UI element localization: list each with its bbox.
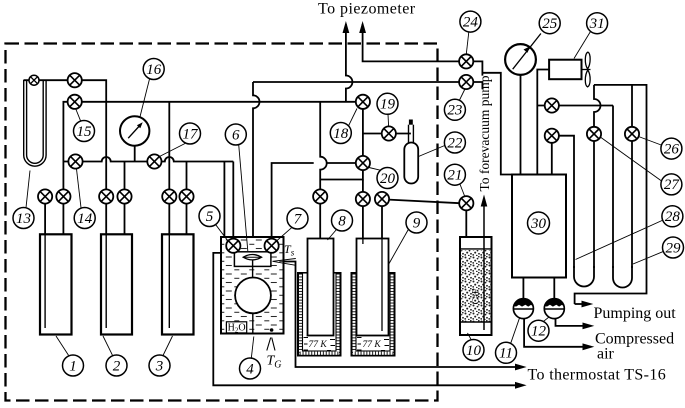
label 13 [13,171,34,229]
pumping out arrowhead [582,301,594,308]
svg-text:To thermostat TS-16: To thermostat TS-16 [528,367,667,384]
bulb [235,278,271,314]
label 19 [377,93,398,126]
valve 26 [625,127,639,141]
wire: piezometer left arm with hop over y=82 bus [346,24,353,102]
labels 13-17 and 1-3 [13,59,201,377]
label 15 [74,110,95,142]
H2O label plate [226,322,246,333]
svg-text:21: 21 [447,168,462,184]
label 4 [240,337,261,380]
valve 5 (in bath) [226,239,240,253]
wire: valve26 down U29 right arm [631,141,633,268]
svg-text:23: 23 [447,103,462,119]
wire: forevacuum line through column [483,206,485,330]
label 12 [528,317,549,341]
svg-text:27: 27 [664,177,681,193]
labels 18-22 [330,11,481,196]
svg-text:77 K: 77 K [363,340,382,350]
valve dewar9-left [356,192,370,206]
label 10 [463,333,484,361]
svg-text:19: 19 [380,97,396,113]
valve Vb [545,129,559,143]
wire: cylinder stubs below valves [44,203,46,234]
wire: riser x=186.5 cylinder3 right valve [186,162,188,190]
valve 17 [147,154,161,168]
svg-text:25: 25 [542,16,558,32]
svg-text:29: 29 [666,240,682,256]
svg-text:15: 15 [77,124,93,140]
label 14 [74,169,95,229]
wire: valve21 down to drying column [465,210,467,237]
valve 27 [587,127,601,141]
wire: right bus continues to valve20 [327,162,356,164]
valve cyl3-left [162,189,176,203]
wire: valve20 down, branch y=179.5 to both dewar valves [320,170,363,180]
wire: valve Va line y=105.5 with bridge at x=594, corner to U29 left arm [537,106,613,269]
wire: valve18 down to valve20 [362,109,364,157]
wire: valve15 bus corner down to cylinder1 right valve [63,102,68,190]
valve (small, on U-tube header) [29,75,39,85]
float lens [243,255,261,260]
wire: Vb down to box30 [551,143,553,175]
forevacuum arrowhead [481,195,488,207]
U-tube trap 13 [24,80,46,166]
wire: left header line y=80 [24,80,107,189]
svg-text:28: 28 [665,209,681,225]
wire: bus y=161.5 with hops at x=106.2 and x=169.3 [63,157,233,162]
svg-text:1: 1 [69,358,77,374]
wire: top line y=84.9 to right drop x=646.5 [575,85,647,304]
svg-text:30: 30 [530,216,547,232]
valve 15 [68,95,82,109]
wire: riser x=124.5 cylinder2 right valve [124,162,126,190]
svg-text:12: 12 [531,324,547,340]
svg-text:8: 8 [338,213,346,229]
label 2 [103,336,127,376]
svg-text:22: 22 [447,135,463,151]
svg-text:4: 4 [246,361,254,377]
valve (U-tube header right) [68,73,82,87]
inner sample chamber [234,252,271,267]
label 26 [639,137,682,160]
label 6 [225,124,248,251]
label 7 [277,208,309,241]
wire: dewar tube stubs [319,203,321,238]
svg-text:11: 11 [499,346,513,362]
wire: vertical x=594 corner to y=84.9, bridge over 105.5 [594,85,601,127]
wire: valve19 branch line [363,133,411,135]
svg-text:24: 24 [463,14,479,30]
svg-text:26: 26 [664,141,680,157]
valve 21 [459,196,473,210]
valve 7 (in bath) [265,239,279,253]
wire: riser to dewar8 valve with hop over bus y=163 [320,102,327,190]
wire: bus to valve21 [389,200,460,204]
label 27 [600,137,682,195]
label 17 [159,123,201,157]
wire: branch from bracket to box30 [482,73,512,175]
pump 11 [513,299,533,319]
wires: box30 to pumps [522,278,524,299]
svg-text:14: 14 [77,211,93,227]
svg-text:20: 20 [380,171,396,187]
box 30 [512,175,566,278]
thermostat circuit: bath to lower arrow [213,162,520,386]
svg-text:6: 6 [232,127,240,143]
label 22 [419,132,466,157]
svg-text:18: 18 [333,126,349,142]
svg-text:10: 10 [466,343,482,359]
gauge 16 [120,116,149,145]
tube from lens to bulb [252,260,254,278]
U-tube 29 bottom [613,266,632,288]
wire: main bus y=82 from corner x=253 to valve23 [253,81,459,83]
dashed border frame [6,44,438,401]
label 20 [369,168,398,189]
svg-text:16: 16 [146,62,162,78]
valve 24 [459,54,473,68]
wire: piezometer right arm, bus y=61.4 to valve24 and bracket [363,24,460,61]
label 9 [389,212,427,264]
wire: bath left outlet L-pipe to thermostat arrow [213,253,520,385]
valve Va [545,98,559,112]
wire: unit31 to box30 [537,70,549,175]
dewar flask 9 [352,273,395,356]
label 5 [199,206,228,242]
wire: valve Vb to U28 left arm [559,136,574,268]
gas cylinder 1 [40,234,72,334]
drying column 10 [460,237,492,335]
label 11 [496,318,520,363]
label 1 [56,336,84,376]
svg-text:3: 3 [155,358,164,374]
wire: main bus y=102 from valve15 to valve18 [82,101,363,103]
wire: riser of bath valve5 [232,162,234,241]
label 23 [444,90,465,121]
wire: pump12 outlet to compressed air upper arrow [556,318,585,326]
valve 23 [459,75,473,89]
valve dewar8 [313,189,327,203]
wire: bath right outlet under dewars to thermostat arrow [284,262,520,368]
svg-text:77 K: 77 K [309,340,328,350]
sample ampoule 22 [404,120,418,184]
valve cyl1-right [56,189,70,203]
valve 18 [356,95,370,109]
valve cyl1-left [38,189,52,203]
label 28 [576,206,683,260]
sample tube in dewar 8 [308,239,334,336]
gauge 25 [505,34,541,175]
valve cyl3-right [179,189,193,203]
valve 19 [382,126,396,140]
label 25 [539,13,560,34]
svg-text:31: 31 [589,16,605,32]
svg-text:To forevacuum pump: To forevacuum pump [477,75,492,191]
piezometer arrowheads [343,21,350,33]
svg-text:Pumping out: Pumping out [594,305,677,322]
svg-text:9: 9 [413,215,421,231]
svg-text:13: 13 [16,211,31,227]
valve 20 [356,156,370,170]
T_s pointer [273,242,296,265]
label 29 [633,237,684,264]
svg-text:2: 2 [113,358,121,374]
wire: riser x=169.3 from y=102 bus to cylinder3 left valve [168,102,170,190]
gas cylinder 3 [162,234,194,334]
valve dewar9-right [375,192,389,206]
label 30 [528,212,550,234]
dewar flask 8 [298,273,341,356]
thermostat unit 31 with fan [549,52,590,87]
valve 14 [68,154,82,168]
wire: riser of bath valve7 and right bus y=163 [272,163,314,240]
sample tube in dewar 9 [357,239,389,336]
wire: gauge16 stem [134,146,136,162]
label 24 [460,11,481,54]
U-tube 28 bottom [574,266,594,287]
gas cylinder 2 [101,234,132,334]
label 18 [330,109,357,144]
tube below bulb [252,313,254,333]
wire: branch x=634 from y=84.9 to valve26 [631,85,633,127]
wire: valve27 down U28 right arm [593,141,595,268]
pump 12 [544,299,564,319]
svg-text:air: air [597,346,615,363]
wire: pump11 outlet to compressed air lower arrow [524,319,584,347]
wire: bus corner down to bath top-left [223,162,225,238]
wire: central tube down to bath, hop over y=102 [253,82,260,254]
label 21 [444,164,465,196]
valve cyl2-right [117,189,131,203]
label 3 [149,336,173,376]
svg-text:To piezometer: To piezometer [318,1,416,18]
label 16 [140,59,164,118]
thermostat arrowheads [515,382,527,389]
water bath vessel 4 [221,237,284,335]
T_G thermometer marker [267,328,282,370]
svg-text:17: 17 [183,126,200,142]
svg-text:5: 5 [206,209,214,225]
svg-text:CaF: CaF [472,289,482,305]
label 8 [328,210,353,240]
piezometer arms and top bus [233,24,512,331]
label 31 [574,13,608,59]
valve cyl2-left [99,189,113,203]
